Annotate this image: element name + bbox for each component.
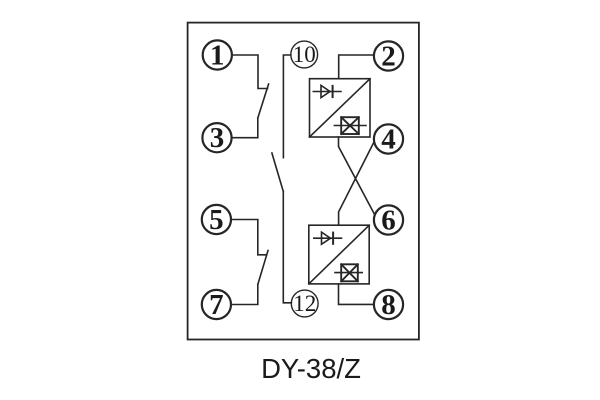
contact K1 blade (terminals 1-3) [258, 84, 269, 118]
wire contact K3 to terminal 12 [283, 192, 291, 303]
svg-text:6: 6 [381, 204, 396, 236]
svg-text:2: 2 [381, 40, 396, 72]
crossover wire terminal 4 to rectifier U2 top [339, 142, 374, 225]
crossover wire U1 bottom to terminal 6 [339, 137, 375, 214]
wire terminal 10 to contact K3 [283, 55, 290, 158]
rectifier U2 diagonal [309, 225, 369, 284]
terminal 12 [291, 290, 318, 317]
svg-text:8: 8 [381, 289, 396, 321]
terminal 10 [291, 41, 318, 68]
rectifier block U1 outline [310, 79, 371, 137]
relay case outline [188, 23, 419, 340]
terminal 8 [374, 289, 403, 321]
terminal 3 [202, 122, 231, 154]
terminal 7 [202, 289, 231, 321]
wire rectifier U2 bottom to terminal 8 [339, 284, 374, 305]
indicator element (crossed square) in U1 [334, 117, 366, 134]
indicator element (crossed square) in U2 [335, 264, 362, 281]
svg-text:7: 7 [209, 289, 224, 321]
svg-text:4: 4 [381, 123, 396, 155]
terminal 4 [374, 123, 403, 155]
svg-text:3: 3 [210, 122, 225, 154]
svg-text:DY-38/Z: DY-38/Z [261, 353, 361, 384]
wire terminal1 to contact K1 fixed point [232, 55, 268, 89]
wire contact K2 to terminal 7 [231, 285, 258, 305]
svg-text:1: 1 [210, 39, 225, 71]
terminal 6 [374, 204, 403, 236]
svg-text:12: 12 [293, 291, 316, 316]
wire terminal 2 to rectifier U1 [339, 55, 374, 79]
rectifier block U2 outline [309, 225, 369, 284]
diode D1 in U1 [313, 85, 341, 97]
wire contact K1 to terminal 3 [232, 118, 258, 138]
wire terminal5 to contact K2 fixed point [231, 220, 266, 255]
rectifier U1 diagonal [310, 79, 371, 137]
terminal 2 [374, 40, 403, 72]
contact K2 blade (terminals 5-7) [258, 251, 268, 285]
contact K3 blade (terminals 10-12) [272, 153, 283, 192]
svg-text:5: 5 [209, 204, 224, 236]
terminal 5 [202, 204, 231, 236]
svg-text:10: 10 [293, 42, 316, 67]
terminal 1 [203, 39, 232, 71]
diode D2 in U2 [314, 232, 342, 244]
